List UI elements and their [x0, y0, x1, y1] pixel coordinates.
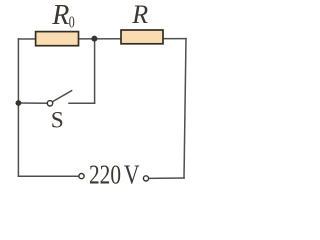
svg-text:R: R: [51, 0, 69, 31]
svg-text:220: 220: [89, 160, 121, 190]
svg-text:R: R: [131, 0, 148, 29]
svg-text:0: 0: [69, 13, 75, 32]
svg-text:S: S: [51, 107, 64, 133]
svg-text:V: V: [124, 160, 140, 190]
